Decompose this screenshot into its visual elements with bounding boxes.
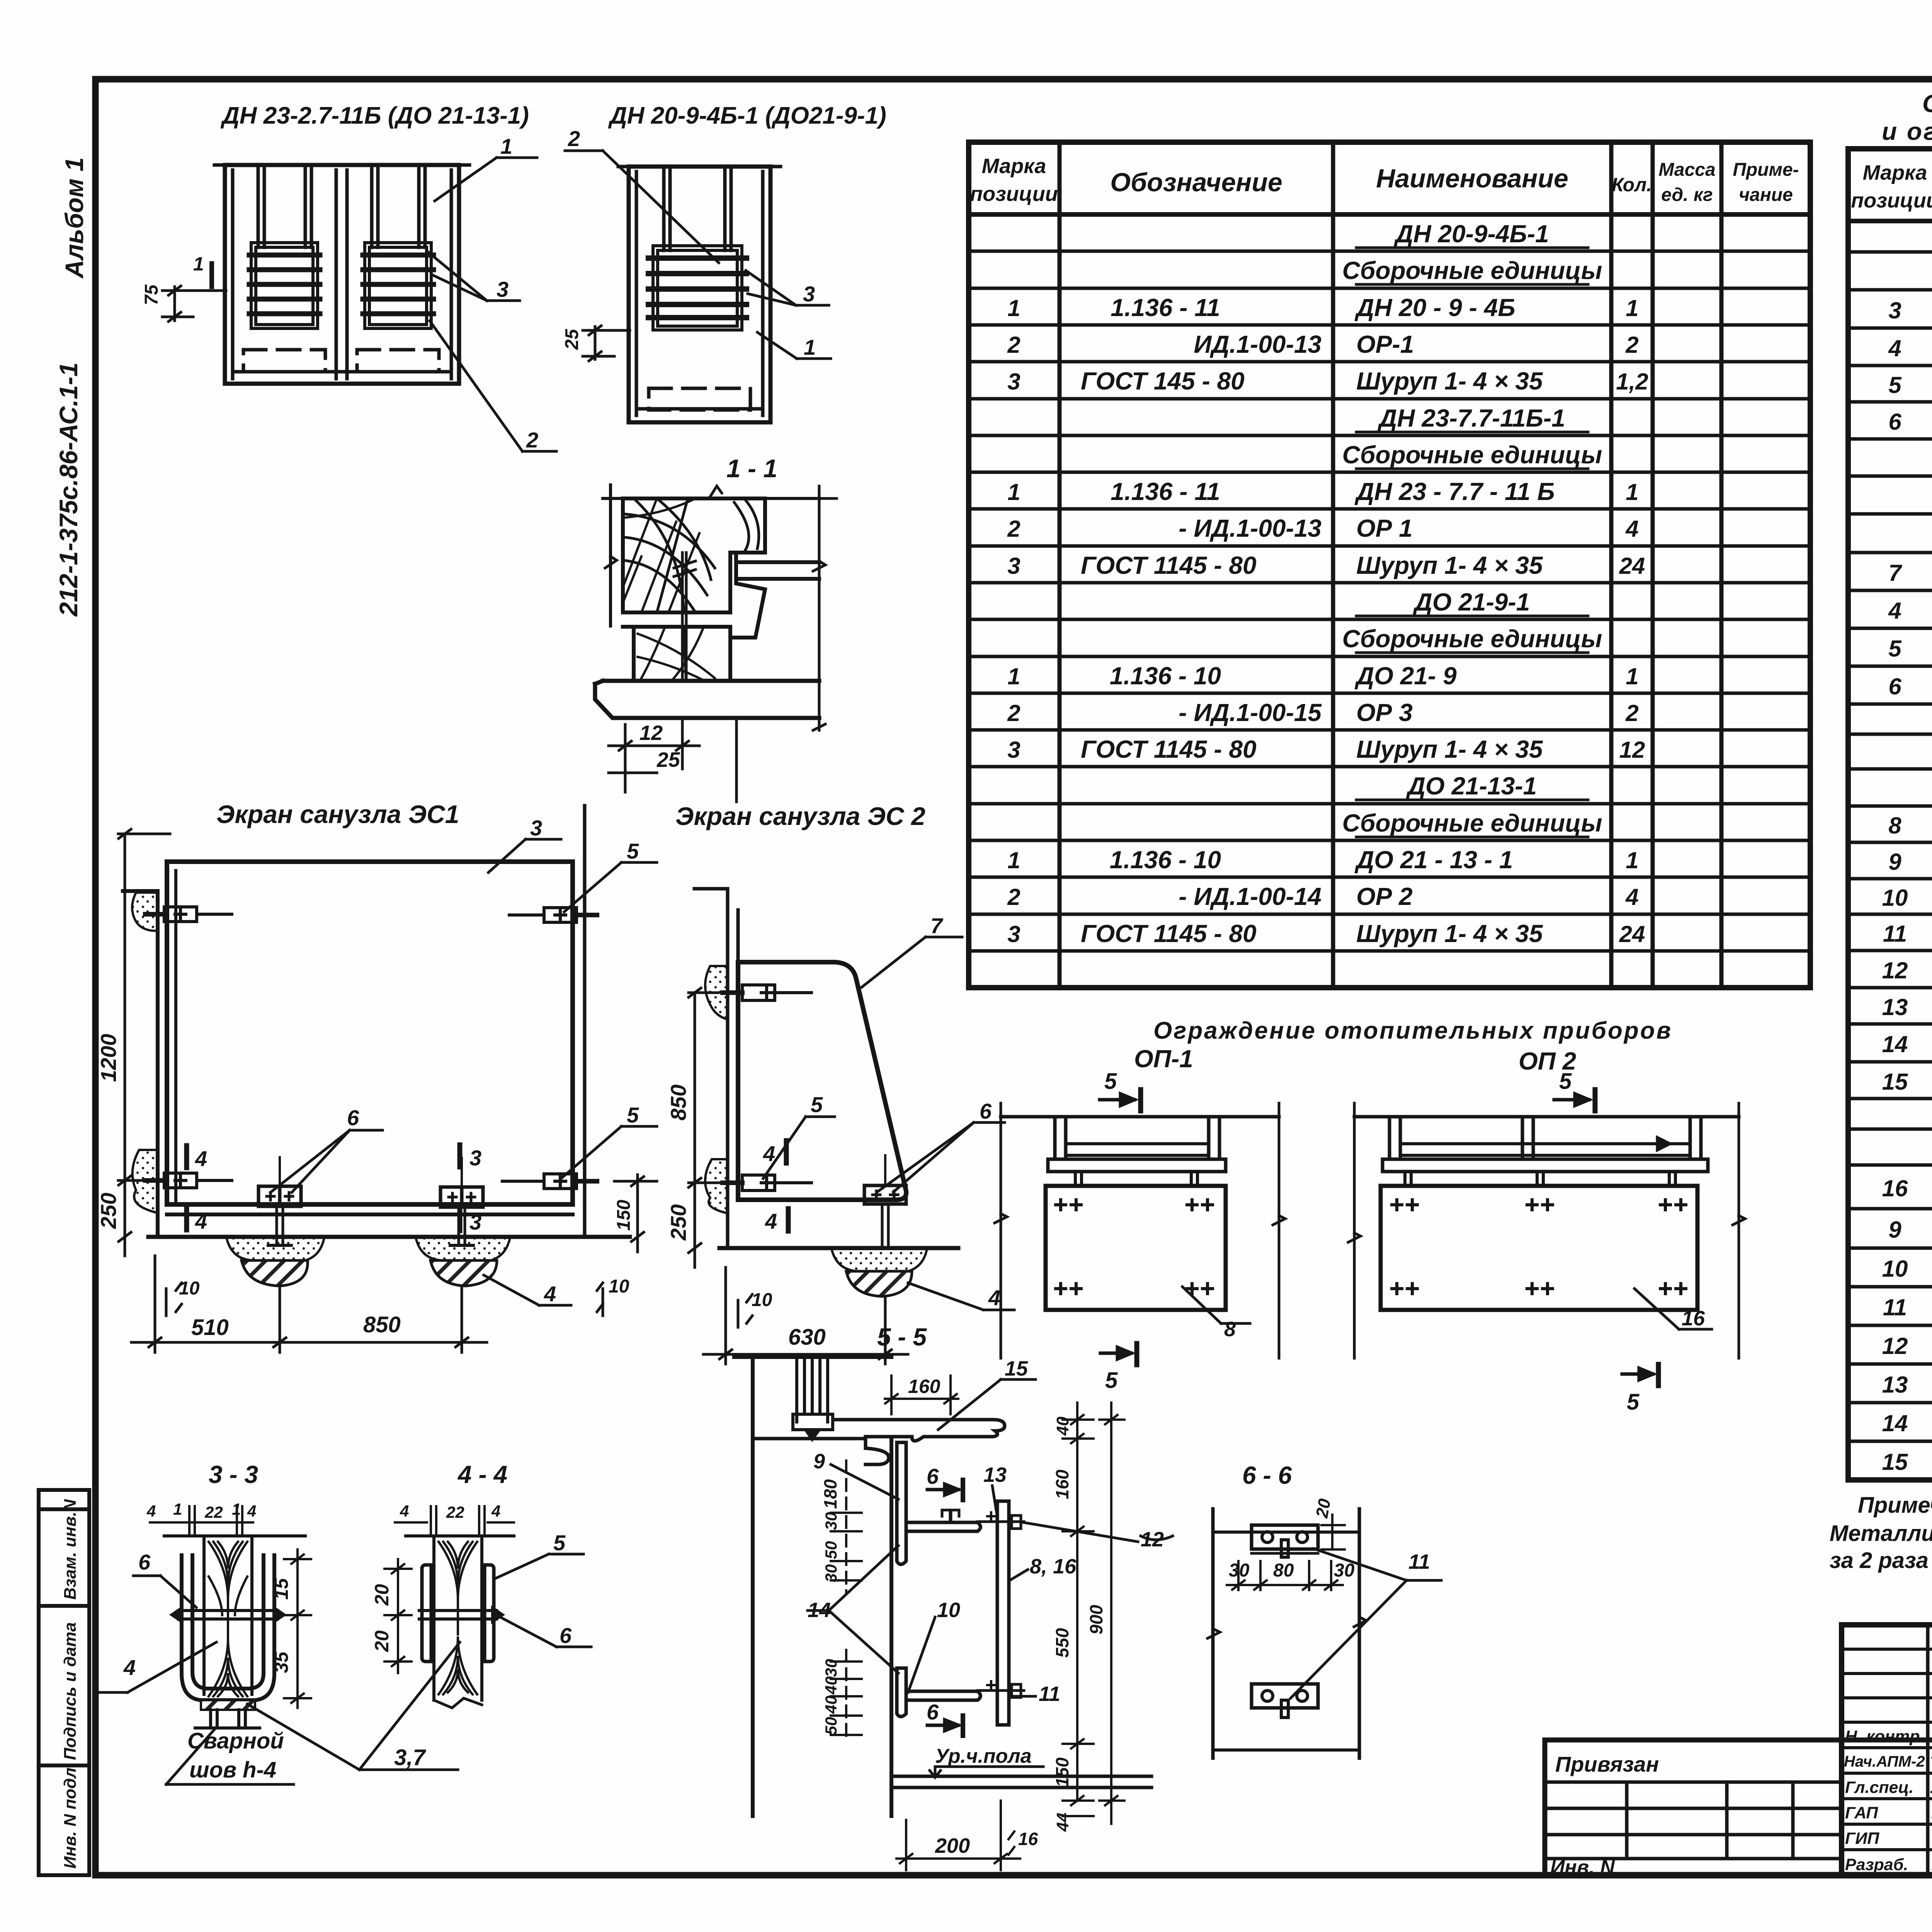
svg-text:1200: 1200 <box>96 1034 121 1082</box>
svg-text:Левин: Левин <box>1930 1778 1932 1797</box>
door1 dimension 75 <box>162 286 226 321</box>
OP2 window frame <box>1389 1117 1701 1159</box>
svg-text:3: 3 <box>530 816 542 840</box>
5-5 floor lines <box>891 1776 1151 1787</box>
title block grid <box>1545 1625 1932 1875</box>
svg-text:ДО 21- 9: ДО 21- 9 <box>1354 662 1457 690</box>
svg-text:1: 1 <box>1007 847 1020 873</box>
svg-text:и ограждений отопительных п: и ограждений отопительных приборов ОП1 ,… <box>1882 117 1932 145</box>
svg-text:- ИД.1-00-15: - ИД.1-00-15 <box>1179 699 1322 726</box>
OP2 sill board <box>1383 1159 1708 1172</box>
ES1 leader 5 top <box>564 862 657 912</box>
svg-text:4: 4 <box>1625 516 1638 542</box>
svg-text:2: 2 <box>1007 884 1020 910</box>
ES2 section mark 4 upper <box>784 1141 789 1163</box>
svg-text:ОР 3: ОР 3 <box>1356 699 1413 726</box>
svg-text:Сборочные единицы: Сборочные единицы <box>1342 441 1602 469</box>
ES2 leader 6 <box>877 1122 1005 1192</box>
ES2 floor line <box>719 1246 958 1250</box>
svg-text:1: 1 <box>1626 847 1638 873</box>
4-4 top dims 4 22 4 <box>395 1506 514 1536</box>
leader label 2 (door2 top) <box>565 151 719 263</box>
svg-text:Приме-: Приме- <box>1733 160 1799 180</box>
svg-text:ГОСТ 1145 - 80: ГОСТ 1145 - 80 <box>1081 551 1257 579</box>
svg-text:1: 1 <box>173 1500 182 1518</box>
3-3 bottom legs <box>195 1710 260 1728</box>
6-6 top hinge plate <box>1252 1525 1318 1557</box>
svg-text:6: 6 <box>560 1623 572 1648</box>
ES1 section mark 3 lower <box>457 1209 463 1231</box>
svg-text:Шуруп 1- 4 × 35: Шуруп 1- 4 × 35 <box>1356 551 1543 579</box>
svg-text:за 2 раза ( цвет - черный ): за 2 раза ( цвет - черный ) <box>1830 1548 1932 1573</box>
leader label 3 (door1) <box>427 251 520 301</box>
section 1-1 shelf plate right <box>730 553 819 638</box>
4-4 label 6 <box>497 1615 591 1647</box>
ES1 panel <box>167 862 573 1214</box>
svg-text:ГАП: ГАП <box>1845 1804 1878 1822</box>
ES1 section mark 4 upper <box>184 1146 189 1168</box>
svg-text:1.136 - 11: 1.136 - 11 <box>1111 294 1220 321</box>
5-5 top dim 160 <box>885 1376 958 1414</box>
svg-text:Экран санузла ЭС 2: Экран санузла ЭС 2 <box>675 802 925 830</box>
svg-text:4: 4 <box>195 1146 207 1171</box>
svg-text:8: 8 <box>1224 1318 1236 1341</box>
svg-text:4: 4 <box>1625 884 1638 910</box>
OP2 plus marks <box>1392 1200 1686 1294</box>
ES2 wall blob top <box>705 966 728 1019</box>
door1 outer frame <box>225 165 459 384</box>
svg-text:30: 30 <box>822 1659 840 1677</box>
right specification table grid <box>1848 149 1932 1480</box>
svg-text:850: 850 <box>363 1312 401 1337</box>
5-5 leader 9 <box>831 1464 898 1499</box>
5-5 bracket Kr1 upper <box>897 1442 981 1565</box>
svg-text:4: 4 <box>1888 335 1901 361</box>
6-6 dim 20 <box>1321 1515 1345 1549</box>
svg-text:1.136 - 10: 1.136 - 10 <box>1110 846 1221 874</box>
svg-text:11: 11 <box>1883 1294 1907 1320</box>
section 1-1 upper wood block <box>623 498 765 612</box>
svg-text:3: 3 <box>1007 369 1020 395</box>
door2 dimension 25 <box>583 326 630 361</box>
svg-text:8, 16: 8, 16 <box>1030 1555 1077 1578</box>
svg-text:Гл.спец.: Гл.спец. <box>1845 1778 1913 1797</box>
4-4 left dims 20 20 <box>384 1559 412 1673</box>
svg-text:3: 3 <box>497 277 509 301</box>
svg-text:8: 8 <box>1888 813 1901 838</box>
OP1 leader 8 <box>1182 1287 1250 1323</box>
svg-text:ИД.1-00-13: ИД.1-00-13 <box>1194 330 1321 358</box>
svg-text:10: 10 <box>179 1278 200 1299</box>
svg-text:Сборочные единицы: Сборочные единицы <box>1342 625 1602 653</box>
svg-text:1: 1 <box>500 134 512 158</box>
svg-text:30: 30 <box>822 1512 840 1530</box>
door1 leaf1 hanging rails <box>257 165 260 247</box>
svg-text:150: 150 <box>614 1200 634 1231</box>
3-3 wood post <box>204 1536 252 1696</box>
door1 leaf2 hanging rails <box>370 165 374 247</box>
svg-text:Примечание: Примечание <box>1858 1493 1932 1518</box>
ES2 section mark 4 lower <box>786 1209 791 1231</box>
svg-text:Сборочные единицы: Сборочные единицы <box>1342 257 1602 284</box>
svg-text:Спецификация элементов экран: Спецификация элементов экранов санузлов … <box>1922 90 1932 117</box>
svg-text:3,7: 3,7 <box>394 1745 426 1770</box>
svg-text:Сварной: Сварной <box>187 1728 284 1753</box>
svg-text:6: 6 <box>138 1550 151 1574</box>
3-3 right dims 15 35 <box>284 1549 311 1708</box>
ES1 leader 5 bottom <box>561 1126 657 1179</box>
OP1 plus marks <box>1056 1200 1213 1294</box>
ES1 floor concrete pocket right <box>416 1238 510 1260</box>
svg-text:Шуруп 1- 4 × 35: Шуруп 1- 4 × 35 <box>1356 920 1543 947</box>
svg-text:ДН 23-2.7-11Б (ДО 21-13-1): ДН 23-2.7-11Б (ДО 21-13-1) <box>220 102 529 129</box>
svg-text:1.136 - 11: 1.136 - 11 <box>1111 478 1220 505</box>
door2 bottom dashed panel <box>649 388 750 410</box>
ES2 panel trapezoid <box>738 962 906 1200</box>
svg-text:6: 6 <box>347 1105 359 1130</box>
svg-text:212-1-375с.86-АС.1-1: 212-1-375с.86-АС.1-1 <box>54 362 83 617</box>
section 1-1 bottom dims 12 / 25 <box>609 718 736 802</box>
5-5 upper bolt <box>978 1512 1024 1529</box>
svg-text:Левин: Левин <box>1930 1727 1932 1746</box>
svg-text:24: 24 <box>1619 921 1645 947</box>
svg-text:14: 14 <box>1882 1410 1908 1436</box>
svg-text:1: 1 <box>1626 295 1638 321</box>
ES1 wall concrete blob top-left <box>132 893 158 931</box>
svg-text:15: 15 <box>1882 1069 1908 1095</box>
ES1 bracket plate left <box>259 1157 301 1245</box>
section 1-1 lower wood block <box>623 612 730 681</box>
svg-text:1: 1 <box>1007 479 1020 505</box>
5-5 leader 12 <box>1023 1522 1138 1542</box>
3-3 label 6 <box>133 1576 196 1607</box>
ES2 floor pocket <box>832 1249 927 1271</box>
svg-text:3: 3 <box>1888 298 1901 323</box>
svg-text:10: 10 <box>609 1276 629 1297</box>
door1 section mark 1 <box>209 264 214 287</box>
door1 leaf1 slat screen <box>249 243 320 328</box>
svg-text:4: 4 <box>195 1209 207 1233</box>
svg-text:6: 6 <box>927 1464 939 1488</box>
svg-text:ГОСТ 1145 - 80: ГОСТ 1145 - 80 <box>1081 920 1257 947</box>
6-6 dims 30 80 30 <box>1227 1561 1343 1590</box>
5-5 right dims 40 160 550 900 150 44 <box>1063 1403 1124 1824</box>
svg-text:6: 6 <box>1888 409 1901 435</box>
svg-text:75: 75 <box>141 284 162 305</box>
ES1 wall concrete blob bottom-left <box>133 1150 158 1213</box>
svg-text:1 - 1: 1 - 1 <box>726 454 777 483</box>
svg-text:4: 4 <box>763 1141 775 1166</box>
ES1 section mark 3 upper <box>457 1145 463 1167</box>
svg-text:5: 5 <box>1888 636 1902 662</box>
svg-text:1: 1 <box>232 1500 241 1518</box>
svg-text:3 - 3: 3 - 3 <box>209 1461 258 1488</box>
svg-text:11: 11 <box>1408 1550 1430 1573</box>
svg-text:2: 2 <box>568 126 580 151</box>
svg-text:630: 630 <box>788 1325 826 1350</box>
svg-text:5 - 5: 5 - 5 <box>877 1323 927 1351</box>
svg-text:5: 5 <box>1105 1368 1118 1393</box>
svg-text:2: 2 <box>1625 700 1638 726</box>
OP2 section arrows 5 <box>1554 1090 1658 1386</box>
svg-text:Нач.АПМ-2: Нач.АПМ-2 <box>1844 1753 1925 1770</box>
svg-text:1: 1 <box>193 253 204 275</box>
ES1 floor concrete pocket left <box>226 1238 324 1260</box>
5-5 sill board <box>753 1420 1005 1464</box>
svg-text:2: 2 <box>1007 332 1020 358</box>
4-4 middle strip <box>419 1608 502 1621</box>
5-5 wall section <box>734 1357 891 1816</box>
svg-text:ДН 20 - 9 - 4Б: ДН 20 - 9 - 4Б <box>1354 294 1515 321</box>
svg-text:15: 15 <box>270 1578 292 1600</box>
svg-text:Н. контр.: Н. контр. <box>1845 1727 1924 1746</box>
svg-text:7: 7 <box>930 913 944 938</box>
svg-text:шов h-4: шов h-4 <box>189 1757 276 1782</box>
svg-text:ОР 1: ОР 1 <box>1356 514 1413 542</box>
svg-text:- ИД.1-00-13: - ИД.1-00-13 <box>1179 514 1321 542</box>
svg-text:Привязан: Привязан <box>1555 1752 1659 1776</box>
svg-text:ДН 20-9-4Б-1 (ДО21-9-1): ДН 20-9-4Б-1 (ДО21-9-1) <box>608 102 886 129</box>
svg-text:ОР 2: ОР 2 <box>1356 883 1413 910</box>
5-5 window member <box>793 1357 833 1439</box>
left margin stamp boxes <box>39 1490 89 1875</box>
svg-text:13: 13 <box>1882 994 1908 1020</box>
svg-text:50: 50 <box>822 1717 840 1735</box>
5-5 left dim stack 30 40 40 50 <box>831 1650 862 1743</box>
5-5 left dim stack 180 30 50 30 <box>831 1461 862 1592</box>
5-5 leader 12 tail <box>1141 1536 1173 1540</box>
svg-text:3: 3 <box>1007 737 1020 763</box>
OP1 top wall line <box>1001 1115 1279 1119</box>
svg-text:44: 44 <box>1053 1813 1072 1832</box>
svg-text:2: 2 <box>1625 332 1638 358</box>
svg-text:180: 180 <box>820 1479 840 1509</box>
svg-text:- ИД.1-00-14: - ИД.1-00-14 <box>1179 883 1321 910</box>
svg-text:13: 13 <box>1882 1372 1908 1398</box>
svg-text:14: 14 <box>808 1599 831 1622</box>
svg-text:20: 20 <box>371 1630 393 1652</box>
ES2 clamp top <box>723 985 811 1000</box>
ES2 clamp bottom <box>723 1175 811 1190</box>
3-3 bottom hatch pad <box>201 1700 255 1710</box>
svg-text:Марка: Марка <box>982 155 1046 178</box>
svg-text:Инв. N подл.: Инв. N подл. <box>61 1763 80 1869</box>
OP2 top wall line <box>1354 1115 1739 1119</box>
svg-text:ГИП: ГИП <box>1845 1829 1879 1848</box>
OP2 leader 16 <box>1634 1289 1712 1329</box>
svg-text:2: 2 <box>1007 516 1020 542</box>
OP2 panel <box>1381 1186 1697 1310</box>
4-4 label 5 <box>495 1554 583 1578</box>
OP1 sill board <box>1048 1159 1226 1172</box>
leader label 2 (door1 bottom) <box>430 321 556 451</box>
5-5 leader 11 <box>1012 1695 1036 1698</box>
3-3 top edge line <box>164 1534 305 1537</box>
svg-text:16: 16 <box>1882 1175 1908 1201</box>
5-5 lower bolt <box>978 1681 1024 1697</box>
svg-text:6: 6 <box>927 1700 939 1724</box>
svg-text:24: 24 <box>1619 553 1645 579</box>
svg-text:25: 25 <box>562 328 582 350</box>
svg-text:13: 13 <box>983 1463 1007 1486</box>
svg-text:10: 10 <box>1882 885 1908 911</box>
ES1 leader 3 <box>488 839 561 872</box>
svg-text:10: 10 <box>937 1599 960 1622</box>
svg-text:Кол.: Кол. <box>1612 174 1652 196</box>
3-3 top dims 4 1 22 1 4 <box>150 1506 253 1536</box>
svg-text:15: 15 <box>1005 1357 1028 1380</box>
svg-text:ДО 21-13-1: ДО 21-13-1 <box>1406 772 1537 800</box>
svg-text:12: 12 <box>1882 1333 1908 1359</box>
svg-text:150: 150 <box>1052 1757 1072 1787</box>
OP1 section arrows 5 <box>1100 1090 1141 1365</box>
svg-text:Ограждение отопительных приб: Ограждение отопительных приборов <box>1153 1017 1672 1044</box>
3-3 middle metal strip <box>172 1608 284 1621</box>
ES1 bracket plate right <box>440 1158 483 1245</box>
ES1 leader 6 <box>270 1130 383 1192</box>
5-5 bracket Kr2 lower <box>897 1668 981 1717</box>
svg-text:6: 6 <box>1888 673 1901 699</box>
ES1 clamp bottom-left <box>145 1173 232 1188</box>
5-5 leader 8,16 <box>1010 1570 1028 1580</box>
svg-text:5: 5 <box>1559 1069 1572 1094</box>
ES2 dim 850 250 left <box>689 988 719 1267</box>
svg-text:ГОСТ 1145 - 80: ГОСТ 1145 - 80 <box>1081 735 1257 763</box>
svg-text:250: 250 <box>96 1193 121 1229</box>
svg-text:160: 160 <box>1052 1469 1072 1499</box>
svg-text:ОП-1: ОП-1 <box>1134 1045 1193 1073</box>
4-4 wood post <box>434 1536 482 1700</box>
svg-text:Марка: Марка <box>1863 161 1927 184</box>
door2 outer frame <box>629 167 770 422</box>
ES2 leader 4 <box>908 1283 1014 1310</box>
svg-text:40: 40 <box>822 1696 840 1714</box>
svg-text:200: 200 <box>935 1834 970 1857</box>
ES2 wall blob bottom <box>705 1159 728 1213</box>
svg-text:20: 20 <box>371 1584 393 1606</box>
svg-text:1: 1 <box>1626 663 1638 689</box>
svg-text:4 - 4: 4 - 4 <box>457 1461 507 1488</box>
svg-text:Взам. инв.N: Взам. инв.N <box>61 1499 80 1600</box>
svg-text:Экран санузла ЭС1: Экран санузла ЭС1 <box>216 800 459 828</box>
ES1 clamp bottom-right <box>502 1174 597 1189</box>
svg-text:Турсунбаев: Турсунбаев <box>1930 1754 1932 1771</box>
door2 hanging rails <box>662 167 666 250</box>
section 1-1 top break line <box>603 485 819 626</box>
svg-text:11: 11 <box>1039 1682 1060 1706</box>
3-3 U channel <box>182 1555 274 1700</box>
svg-text:4: 4 <box>123 1655 136 1680</box>
section 1-1 screw center <box>674 553 696 680</box>
ES2 bracket plate <box>864 1155 906 1248</box>
svg-text:30: 30 <box>822 1564 840 1582</box>
svg-text:Наименование: Наименование <box>1376 164 1568 193</box>
svg-text:4: 4 <box>146 1502 156 1520</box>
ES2 bottom dim 630 <box>703 1267 908 1364</box>
svg-text:6 - 6: 6 - 6 <box>1242 1461 1292 1489</box>
5-5 bottom dim 200 16 <box>896 1801 1020 1870</box>
svg-text:10: 10 <box>752 1290 772 1310</box>
leader label 3 (door2) <box>746 270 829 305</box>
svg-text:ГОСТ 145 - 80: ГОСТ 145 - 80 <box>1081 367 1245 395</box>
svg-text:чание: чание <box>1739 185 1793 205</box>
5-5 leader 14 <box>808 1546 898 1673</box>
svg-text:1: 1 <box>1007 295 1020 321</box>
svg-text:1: 1 <box>1626 479 1638 505</box>
OP2 side dim lines <box>1348 1103 1745 1358</box>
OP1 window frame <box>1055 1117 1219 1159</box>
svg-text:850: 850 <box>666 1085 690 1121</box>
svg-text:Металлические элементы окрас: Металлические элементы окрасить масляной… <box>1830 1521 1932 1546</box>
svg-text:22: 22 <box>446 1503 464 1521</box>
svg-text:30: 30 <box>1229 1560 1250 1581</box>
svg-text:1.136 - 10: 1.136 - 10 <box>1110 662 1221 690</box>
svg-text:3: 3 <box>1007 921 1020 947</box>
OP1 stems <box>1075 1172 1197 1186</box>
4-4 side plates <box>422 1565 494 1662</box>
svg-text:5: 5 <box>627 839 639 863</box>
3-3 / 4-4 label 3,7 <box>247 1642 460 1770</box>
svg-text:Шуруп 1- 4 × 35: Шуруп 1- 4 × 35 <box>1356 735 1543 763</box>
svg-text:16: 16 <box>1682 1307 1705 1330</box>
svg-text:4: 4 <box>1888 598 1901 624</box>
svg-text:12: 12 <box>1619 737 1645 763</box>
svg-text:ДО 21 - 13 - 1: ДО 21 - 13 - 1 <box>1354 846 1513 874</box>
svg-text:2: 2 <box>1007 700 1020 726</box>
5-5 section marks 6 <box>927 1480 963 1736</box>
section 1-1 bottom sill slab <box>595 681 819 718</box>
svg-text:5: 5 <box>627 1103 639 1127</box>
svg-text:9: 9 <box>1888 1217 1901 1243</box>
ES1 clamp top-left <box>145 907 232 922</box>
svg-text:Инв. N: Инв. N <box>1550 1856 1615 1879</box>
ES1 dim 1200 left <box>118 829 170 1256</box>
ES1 bottom dim 510 850 <box>131 1256 603 1352</box>
svg-text:12: 12 <box>1882 957 1908 983</box>
6-6 board edges <box>1207 1509 1366 1758</box>
ES1 section mark 4 lower <box>184 1208 189 1230</box>
leader label 1 (door2) <box>757 332 831 359</box>
svg-text:900: 900 <box>1086 1605 1106 1634</box>
svg-text:Разраб.: Разраб. <box>1845 1855 1908 1874</box>
svg-text:Подпись и дата: Подпись и дата <box>61 1622 80 1760</box>
svg-text:4: 4 <box>544 1282 556 1306</box>
5-5 leader 15 <box>938 1379 1036 1430</box>
svg-text:4: 4 <box>491 1502 500 1520</box>
ES1 floor line <box>148 1235 630 1239</box>
ES1 right wall line <box>583 806 587 1237</box>
ES2 floor hatch pad <box>846 1271 912 1296</box>
svg-text:2: 2 <box>526 428 538 452</box>
ES1 clamp top-right <box>509 908 597 922</box>
ES2 wall line <box>694 889 738 1248</box>
svg-text:4: 4 <box>400 1502 409 1520</box>
svg-text:30: 30 <box>1334 1560 1355 1581</box>
svg-text:5: 5 <box>1627 1389 1639 1415</box>
svg-text:1: 1 <box>1007 663 1020 689</box>
svg-text:22: 22 <box>204 1503 223 1521</box>
svg-text:ДН 23 - 7.7 - 11 Б: ДН 23 - 7.7 - 11 Б <box>1354 478 1555 505</box>
svg-text:5: 5 <box>1104 1069 1117 1094</box>
svg-text:160: 160 <box>908 1376 940 1397</box>
svg-text:позиции: позиции <box>1851 189 1932 212</box>
svg-text:9: 9 <box>1888 849 1901 875</box>
svg-text:ОР-1: ОР-1 <box>1356 330 1414 358</box>
OP1 panel <box>1046 1186 1226 1310</box>
ES2 leader 5 <box>763 1117 835 1179</box>
svg-text:510: 510 <box>191 1315 229 1340</box>
svg-text:ед. кг: ед. кг <box>1661 185 1713 205</box>
